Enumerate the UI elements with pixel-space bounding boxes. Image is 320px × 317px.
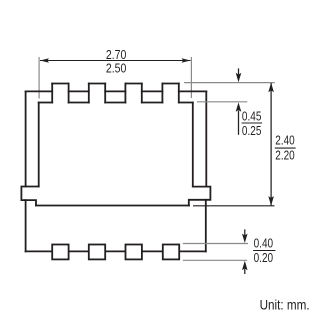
terminal 2 top	[89, 83, 105, 85]
extension line right (grey vertical)	[190, 57, 192, 98]
ext line bottom edge to right (grey)	[193, 205, 275, 207]
terminal 3 top	[125, 83, 141, 85]
dimension line 2.70/2.50	[40, 60, 191, 62]
svg-text:0.40: 0.40	[254, 237, 274, 251]
right side tab	[189, 187, 211, 206]
body bottom edge	[36, 205, 189, 207]
fraction bar 2.40/2.20	[275, 147, 296, 149]
terminal 1 top	[52, 83, 68, 85]
svg-text:2.70: 2.70	[106, 48, 127, 62]
top edge right margin	[179, 90, 207, 92]
svg-text:0.20: 0.20	[254, 251, 274, 265]
top edge left margin	[26, 90, 53, 92]
right outer edge	[205, 91, 207, 186]
terminal 4 top	[162, 83, 178, 85]
square 3	[126, 245, 142, 260]
fraction bar 0.40/0.20	[253, 250, 275, 252]
left outer edge	[25, 91, 27, 186]
valley 3	[142, 90, 163, 92]
dim 0.45/0.25 down arrow	[236, 68, 242, 134]
left notch floor	[39, 102, 53, 104]
square 4	[163, 245, 179, 260]
dim 0.45/0.25 up arrow	[238, 111, 240, 135]
left inner vertical	[38, 103, 40, 187]
fraction bar 0.45/0.25	[242, 122, 263, 124]
svg-text:0.25: 0.25	[242, 124, 262, 138]
svg-text:0.45: 0.45	[242, 109, 262, 123]
svg-text:2.40: 2.40	[275, 134, 294, 148]
left lower vertical	[25, 200, 27, 251]
square 1	[52, 245, 68, 260]
dim 0.40/0.20 up arrow	[244, 269, 246, 275]
bottom terminal squares	[52, 245, 179, 260]
ext line notch floor level (grey)	[197, 101, 247, 103]
ext line square bottom level (grey)	[183, 259, 247, 261]
svg-text:Unit: mm.: Unit: mm.	[260, 297, 310, 312]
left side tab	[21, 187, 38, 206]
bottom terminal row line	[26, 250, 206, 252]
svg-text:2.20: 2.20	[275, 148, 294, 162]
dim 0.40/0.20 down arrow	[242, 229, 248, 274]
right inner vertical	[192, 103, 194, 187]
right notch floor	[179, 102, 193, 104]
dimension line 2.40/2.20 (vertical)	[268, 83, 274, 206]
valley 2	[105, 90, 125, 92]
square 2	[89, 245, 105, 260]
package body outline	[21, 84, 210, 252]
extension line left (grey vertical)	[38, 57, 40, 99]
svg-text:2.50: 2.50	[106, 62, 127, 76]
right lower vertical	[205, 200, 207, 252]
valley 1	[69, 90, 89, 92]
ext line square top level (grey)	[183, 243, 248, 245]
ext line terminal top level (grey)	[184, 82, 275, 84]
